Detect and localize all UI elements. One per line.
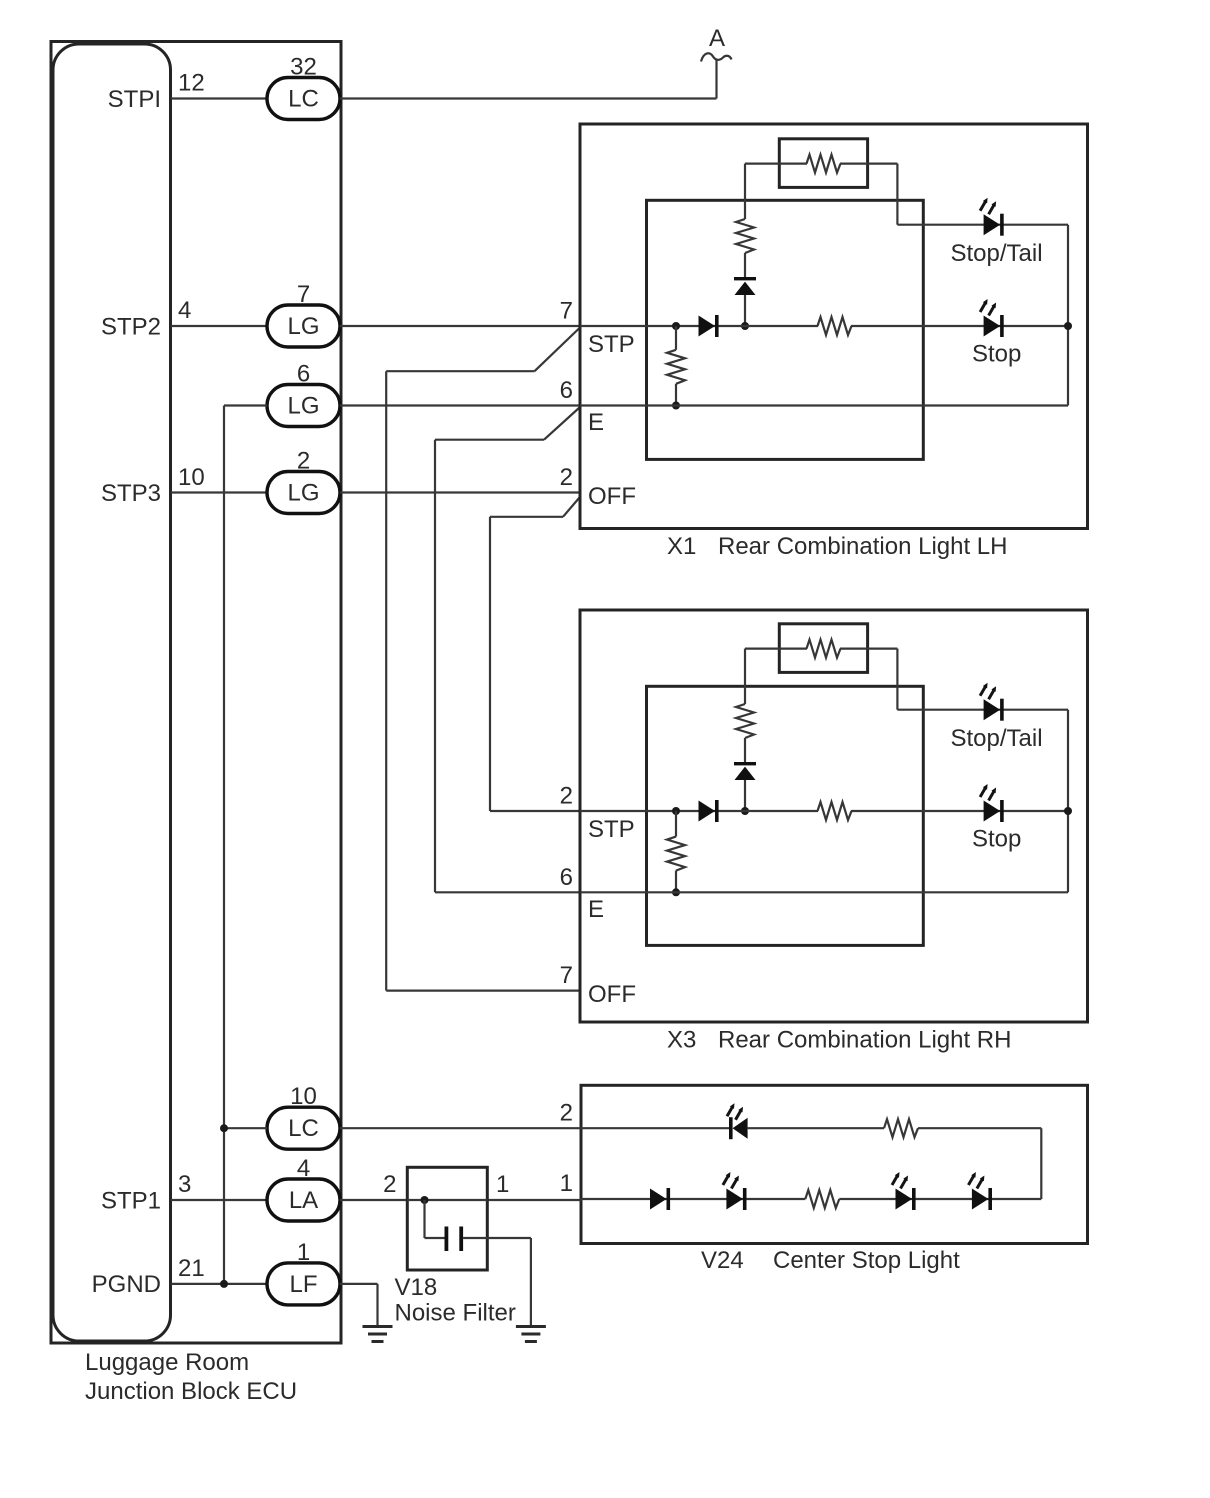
wire LC10 to V24 pin2 [340, 1127, 581, 1129]
svg-text:LG: LG [287, 393, 319, 420]
svg-text:6: 6 [560, 864, 573, 891]
svg-text:7: 7 [297, 281, 310, 308]
wire STP2 to X1 STP [340, 325, 580, 327]
wire X1 E line [580, 404, 1068, 406]
wire V24 top left [581, 1127, 729, 1129]
wire LC10 to bus [224, 1127, 267, 1129]
svg-text:Stop: Stop [972, 341, 1021, 368]
LED V24 bottom 3 [968, 1172, 992, 1210]
svg-text:3: 3 [178, 1171, 191, 1198]
LED V24 top (reverse) [727, 1103, 748, 1139]
svg-text:2: 2 [560, 1100, 573, 1127]
svg-text:6: 6 [297, 361, 310, 388]
wire diagonal X1 OFF branch [563, 498, 580, 517]
wire pin4 STP2 stub [171, 325, 267, 327]
LED X3 Stop/Tail lamp [980, 683, 1004, 721]
wire V24 bottom right [839, 1198, 1041, 1200]
diode X1 zener up [734, 277, 756, 295]
wire pin21 PGND stub [171, 1283, 267, 1285]
svg-text:X3: X3 [667, 1027, 696, 1054]
wire diagonal X1 STP branch [535, 328, 580, 371]
junction block connector box [51, 42, 341, 1344]
junction bus-PGND [220, 1280, 228, 1288]
diode X1 series STP [699, 315, 719, 337]
junction X3 shunt-E [672, 888, 680, 896]
wire X1 STP left [580, 325, 818, 327]
connector pin LF 1 [267, 1239, 340, 1305]
resistor X3 bridge box [779, 624, 867, 673]
wire X1 shunt top [675, 326, 677, 350]
svg-text:32: 32 [290, 54, 317, 81]
junction X3 right-STP [1064, 807, 1072, 815]
wire E branch vertical [434, 440, 436, 893]
svg-text:E: E [588, 896, 604, 923]
connector pin LC 32 [267, 54, 340, 120]
resistor V24 bottom [805, 1190, 839, 1208]
wire X3 tail drop [896, 649, 898, 710]
connector pin LG 2 [267, 448, 340, 514]
wire X1 STP right [851, 325, 1068, 327]
svg-text:2: 2 [383, 1171, 396, 1198]
wire V24 right loop [1040, 1128, 1042, 1199]
wire X3 chain bottom [744, 780, 746, 811]
junction bus-LC10 [220, 1124, 228, 1132]
svg-text:1: 1 [496, 1171, 509, 1198]
junction X1 right-STP [1064, 322, 1072, 330]
resistor X3 series [736, 704, 754, 738]
wire V18 ground drop [530, 1238, 532, 1327]
svg-text:Rear Combination Light RH: Rear Combination Light RH [718, 1027, 1011, 1054]
wire X1 chain bottom [744, 295, 746, 326]
wire LF to ground [340, 1283, 378, 1285]
wire X1 chain mid [744, 253, 746, 277]
wire X3 STP right [851, 810, 1068, 812]
svg-text:2: 2 [297, 448, 310, 475]
svg-text:LC: LC [288, 1115, 319, 1142]
V18 Noise Filter box [407, 1167, 487, 1270]
wire STP2 branch horizontal [386, 370, 534, 372]
wire LF ground drop [376, 1284, 378, 1327]
wire X1 bridge left stub [779, 163, 807, 165]
wire pin12 STPI stub [171, 97, 267, 99]
wire X3 bridge to chain [745, 647, 779, 649]
wire X3 tail line [897, 709, 1068, 711]
wire V18 through [407, 1199, 487, 1201]
resistor X3 bridge [807, 640, 841, 658]
svg-text:Stop/Tail: Stop/Tail [951, 725, 1043, 752]
wire X1 bridge to chain [745, 163, 779, 165]
wire STP3 branch horizontal [490, 516, 563, 518]
wire V24 top mid [748, 1127, 884, 1129]
connector pin LC 10 [267, 1083, 340, 1149]
resistor X3 shunt [667, 837, 685, 871]
wire E branch horizontal [435, 439, 544, 441]
capacitor V18 [445, 1227, 464, 1252]
svg-text:2: 2 [560, 464, 573, 491]
svg-text:E: E [588, 409, 604, 436]
svg-text:2: 2 [560, 783, 573, 810]
svg-text:V24: V24 [701, 1247, 744, 1274]
wire X1 shunt bottom [675, 384, 677, 406]
svg-text:4: 4 [297, 1155, 310, 1182]
LED X1 Stop lamp [980, 299, 1004, 337]
connector pin LG 6 [267, 361, 340, 427]
wire capacitor to ground run [463, 1237, 531, 1239]
svg-text:4: 4 [178, 297, 191, 324]
wire X1 bridge to tail [868, 163, 898, 165]
wire V18 to V24 pin1 [487, 1199, 581, 1201]
ground LF [363, 1327, 393, 1342]
node A break squiggle [701, 53, 732, 61]
wire STPI to A [340, 97, 717, 99]
wire X3 bridge right stub [840, 647, 868, 649]
junction X3 chain-STP [741, 807, 749, 815]
junction V18 tap [421, 1196, 429, 1204]
X3 Rear Combination Light RH box [580, 610, 1088, 1022]
junction X1 shunt-E [672, 402, 680, 410]
svg-text:V18: V18 [395, 1274, 438, 1301]
wire LG6 to bus [224, 404, 267, 406]
wire STP1 to V18 [340, 1199, 407, 1201]
svg-text:21: 21 [178, 1255, 205, 1282]
svg-text:PGND: PGND [92, 1271, 161, 1298]
svg-text:A: A [709, 25, 725, 52]
svg-text:LC: LC [288, 86, 319, 113]
wire X3 shunt bottom [675, 871, 677, 893]
wire V18 to capacitor [425, 1237, 445, 1239]
svg-text:Luggage Room: Luggage Room [85, 1349, 249, 1376]
svg-text:STP: STP [588, 331, 635, 358]
wire pin10 STP3 stub [171, 491, 267, 493]
wire to X3 E [435, 891, 581, 893]
resistor X3 STP [818, 802, 852, 820]
diode V24 input [650, 1188, 670, 1210]
wire X3 chain mid [744, 738, 746, 762]
svg-text:10: 10 [290, 1083, 317, 1110]
connector pin LG 7 [267, 281, 340, 347]
wire STP2 branch vertical [385, 371, 387, 990]
svg-text:STPI: STPI [108, 86, 161, 113]
wire LG6 to X1 E [340, 404, 580, 406]
svg-text:Noise Filter: Noise Filter [395, 1300, 516, 1327]
svg-text:Rear Combination Light LH: Rear Combination Light LH [718, 533, 1008, 560]
wire X3 E line [580, 891, 1068, 893]
wire diagonal X1 E branch [544, 408, 580, 440]
wire X3 bridge to tail [868, 647, 898, 649]
diode X3 series STP [699, 800, 719, 822]
svg-text:STP3: STP3 [101, 480, 161, 507]
resistor X1 bridge [807, 155, 841, 173]
wire X1 right vertical [1067, 225, 1069, 406]
resistor X1 bridge box [779, 139, 867, 188]
LED V24 bottom 2 [892, 1172, 916, 1210]
V24 Center Stop Light box [581, 1085, 1088, 1243]
wire riser to A [715, 60, 717, 99]
svg-text:12: 12 [178, 70, 205, 97]
wire pin3 STP1 stub [171, 1199, 267, 1201]
wire to X3 OFF [386, 989, 581, 991]
wire X1 chain vertical [744, 164, 746, 219]
LED X3 Stop lamp [980, 784, 1004, 822]
wire V24 bottom left [581, 1198, 805, 1200]
svg-text:LG: LG [287, 313, 319, 340]
X1 Rear Combination Light LH box [580, 124, 1088, 529]
svg-text:LA: LA [289, 1187, 318, 1214]
wire X1 tail line [897, 224, 1068, 226]
svg-text:Center Stop Light: Center Stop Light [773, 1247, 960, 1274]
svg-text:1: 1 [560, 1170, 573, 1197]
svg-text:LF: LF [289, 1271, 317, 1298]
junction X3 STP-shunt [672, 807, 680, 815]
wire X3 chain vertical [744, 649, 746, 704]
svg-text:STP2: STP2 [101, 314, 161, 341]
ECU body (rounded) [53, 44, 171, 1341]
resistor X1 STP [818, 317, 852, 335]
connector pin LA 4 [267, 1155, 340, 1221]
svg-text:7: 7 [560, 298, 573, 325]
X1 inner module box [647, 200, 924, 459]
wire X3 shunt top [675, 811, 677, 837]
wire to X3 STP [490, 810, 581, 812]
resistor V24 top [884, 1119, 918, 1137]
svg-text:X1: X1 [667, 533, 696, 560]
svg-text:OFF: OFF [588, 981, 636, 1008]
wire X3 bridge left stub [779, 647, 807, 649]
X3 inner module box [647, 686, 924, 945]
wire STP3 to X1 OFF [340, 491, 580, 493]
diode X3 zener up [734, 762, 756, 780]
svg-text:STP1: STP1 [101, 1188, 161, 1215]
wire X1 tail drop [896, 164, 898, 225]
svg-text:Stop: Stop [972, 826, 1021, 853]
wire V18 tap drop [423, 1200, 425, 1238]
LED V24 bottom 1 [723, 1172, 747, 1210]
wire V24 top right [918, 1127, 1041, 1129]
svg-text:STP: STP [588, 816, 635, 843]
wire X3 STP left [580, 810, 818, 812]
svg-text:Stop/Tail: Stop/Tail [951, 240, 1043, 267]
svg-text:LG: LG [287, 480, 319, 507]
junction X1 chain-STP [741, 322, 749, 330]
resistor X1 series [736, 219, 754, 253]
wire X1 bridge right stub [840, 163, 868, 165]
LED X1 Stop/Tail lamp [980, 198, 1004, 236]
svg-text:Junction Block ECU: Junction Block ECU [85, 1378, 297, 1405]
wire X3 right vertical [1067, 710, 1069, 893]
svg-text:10: 10 [178, 464, 205, 491]
junction X1 STP-shunt [672, 322, 680, 330]
resistor X1 shunt [667, 350, 685, 384]
svg-text:7: 7 [560, 962, 573, 989]
wire ground bus vertical [223, 406, 225, 1284]
wire STP3 branch vertical [489, 517, 491, 811]
svg-text:6: 6 [560, 377, 573, 404]
ground V18 [516, 1327, 546, 1342]
svg-text:OFF: OFF [588, 483, 636, 510]
svg-text:1: 1 [297, 1239, 310, 1266]
